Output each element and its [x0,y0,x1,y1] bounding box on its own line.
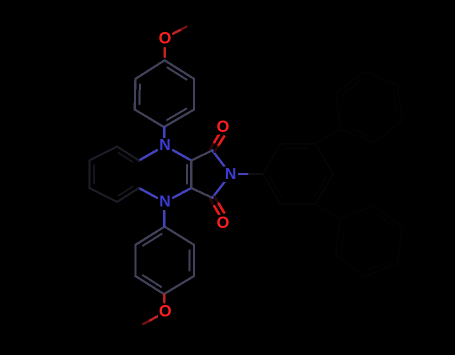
svg-text:O: O [159,30,172,48]
svg-text:O: O [159,303,172,321]
svg-text:O: O [217,118,230,136]
svg-text:N: N [159,137,170,154]
svg-text:N: N [159,194,170,211]
svg-text:N: N [225,166,236,183]
svg-text:O: O [217,214,230,232]
